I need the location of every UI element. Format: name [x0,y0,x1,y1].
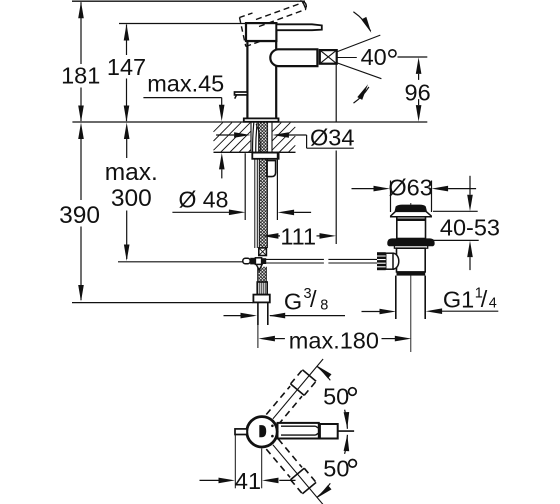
svg-text:max.: max. [105,159,158,186]
svg-text:4: 4 [489,296,497,312]
svg-text:/: / [310,286,317,312]
svg-text:147: 147 [107,54,146,80]
svg-text:96: 96 [405,79,431,105]
svg-text:390: 390 [59,202,100,229]
svg-text:40: 40 [361,44,387,70]
svg-text:111: 111 [280,223,316,249]
svg-text:Ø34: Ø34 [310,125,354,151]
svg-text:300: 300 [111,185,152,212]
svg-text:50: 50 [323,384,349,410]
svg-text:Ø 48: Ø 48 [179,187,229,213]
svg-text:181: 181 [61,63,100,89]
svg-text:8: 8 [320,298,328,314]
svg-text:max.45: max.45 [147,71,224,97]
svg-text:40-53: 40-53 [440,215,500,241]
svg-text:/: / [481,286,488,312]
svg-text:G1: G1 [443,287,474,313]
svg-text:50: 50 [323,456,349,482]
svg-text:Ø63: Ø63 [388,175,432,201]
svg-text:41: 41 [235,468,261,494]
svg-text:max.180: max.180 [289,328,379,354]
svg-text:G: G [284,289,302,315]
